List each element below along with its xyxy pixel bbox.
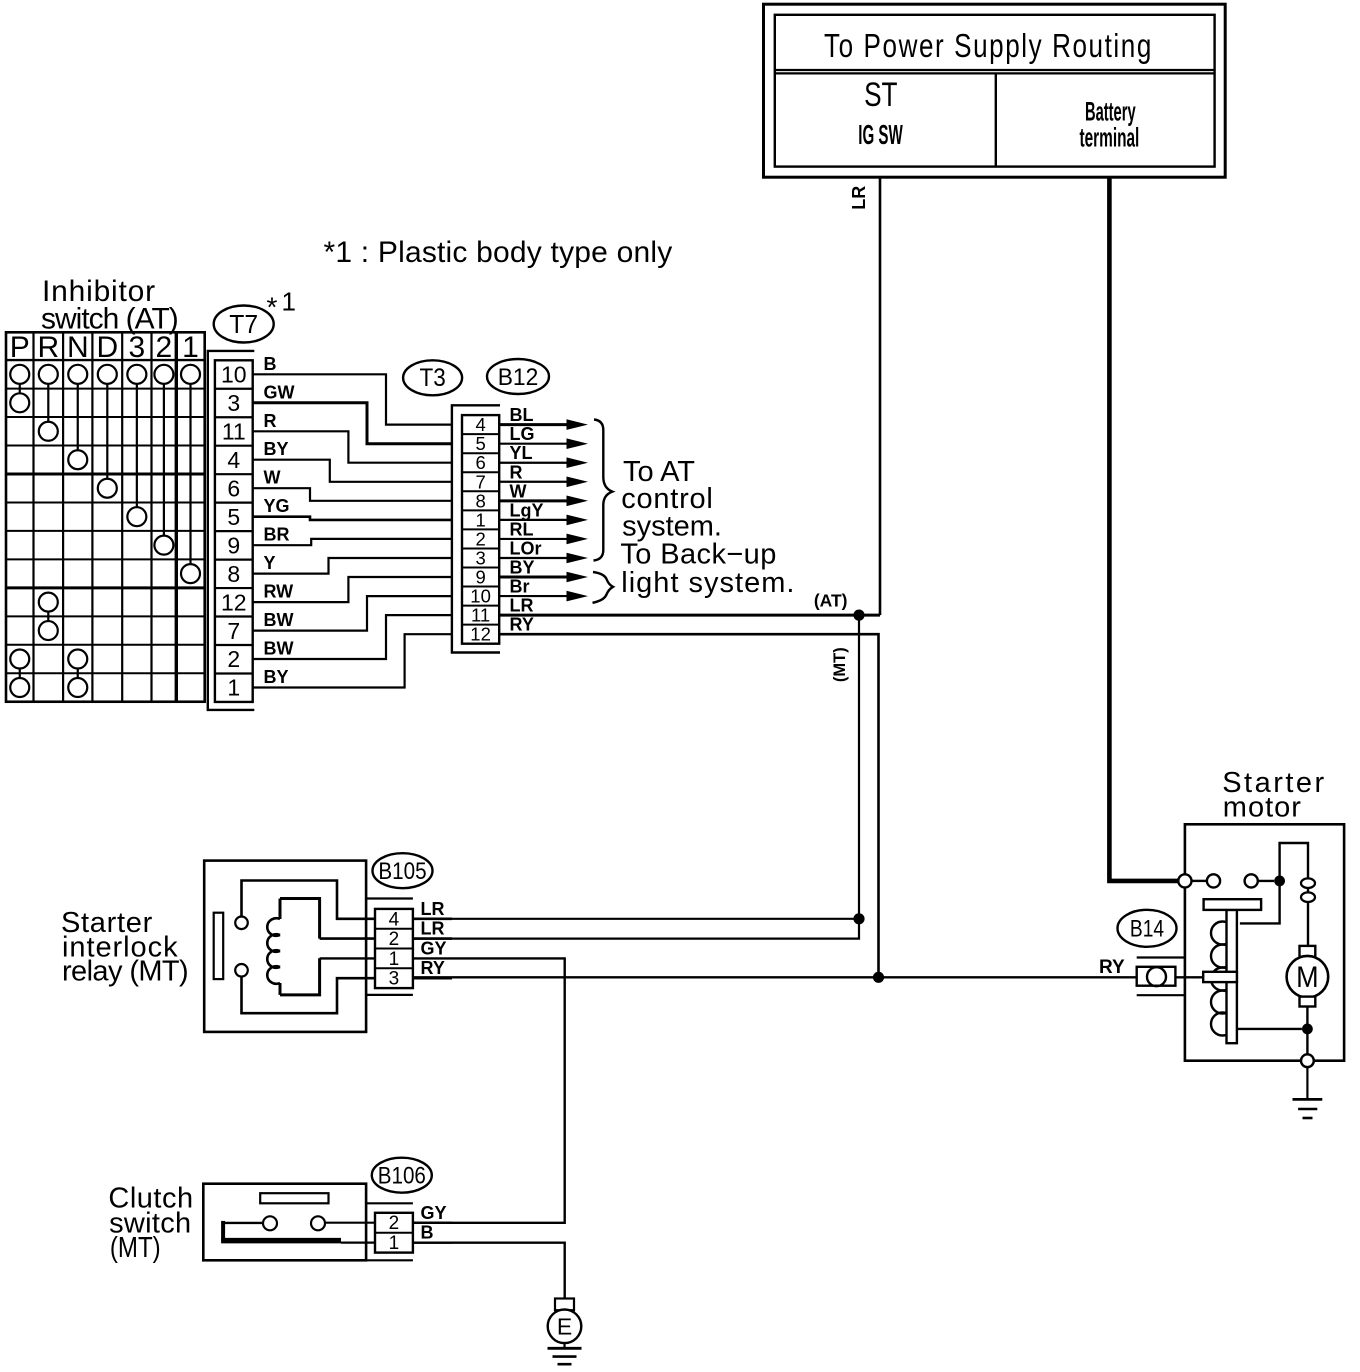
svg-text:W: W xyxy=(264,468,281,488)
svg-text:GW: GW xyxy=(264,382,295,402)
svg-text:8: 8 xyxy=(475,490,485,511)
svg-text:B105: B105 xyxy=(378,858,426,885)
svg-text:P: P xyxy=(10,331,30,364)
svg-text:1: 1 xyxy=(475,509,485,530)
wire ST (LR) vertical xyxy=(879,177,882,615)
arrow wire B12 pin 8 (W) xyxy=(499,499,569,502)
wire relay pin 4 LR xyxy=(413,918,859,920)
svg-text:BY: BY xyxy=(264,667,289,687)
relay coil xyxy=(267,899,319,995)
wire T7 pin 4 (BY) to B12 pin 7 xyxy=(253,460,453,482)
wire T7 pin 2 (BW) to B12 pin 11 xyxy=(253,615,453,659)
svg-text:9: 9 xyxy=(227,532,240,558)
connector B14 shell wings xyxy=(1137,958,1185,996)
connector B106 shell wings xyxy=(366,1203,413,1260)
arrow wire B12 pin 6 (YL) xyxy=(499,462,569,464)
plunger crossbar xyxy=(1204,899,1262,910)
svg-text:M: M xyxy=(1296,961,1318,995)
box bottom terminal circle xyxy=(1301,1054,1314,1067)
B12 pin numbers xyxy=(470,414,491,645)
annotation to back-up light system xyxy=(620,539,795,600)
brace to AT control system xyxy=(594,420,613,561)
svg-text:D: D xyxy=(96,331,118,364)
relay coil wire pin 2 xyxy=(320,937,452,940)
B12 wire color labels xyxy=(510,405,544,635)
svg-text:8: 8 xyxy=(227,561,240,587)
note *1 plastic body type xyxy=(324,236,673,269)
svg-text:9: 9 xyxy=(475,567,485,588)
svg-text:motor: motor xyxy=(1223,792,1302,824)
svg-text:R: R xyxy=(510,462,523,482)
svg-text:terminal: terminal xyxy=(1079,122,1139,153)
svg-text:GY: GY xyxy=(421,938,447,958)
arrow wire B12 pin 9 (BY) xyxy=(499,576,569,579)
svg-text:1: 1 xyxy=(282,287,296,317)
connector T7 cells xyxy=(215,360,253,702)
node motor-coil junction dot xyxy=(1302,1024,1313,1035)
connector B106 oval xyxy=(372,1158,432,1193)
svg-text:RY: RY xyxy=(510,615,534,635)
arrow wire B12 pin 3 (LOr) xyxy=(499,557,569,559)
connector B105 cells xyxy=(375,909,413,988)
svg-text:3: 3 xyxy=(227,390,240,416)
solenoid coil loops xyxy=(1211,922,1234,1036)
connector T7 oval xyxy=(214,306,274,343)
svg-text:10: 10 xyxy=(221,362,247,388)
relay contact circle bottom xyxy=(235,964,248,977)
B105 pin numbers xyxy=(389,909,400,989)
svg-text:LR: LR xyxy=(849,186,869,210)
node RY junction dot xyxy=(873,972,884,983)
wire T7 pin 1 (BY) to B12 pin 12 xyxy=(253,634,453,687)
svg-text:R: R xyxy=(264,411,277,431)
ground E symbol xyxy=(548,1343,582,1364)
arrow wire B12 pin 4 (BL) xyxy=(499,423,569,426)
svg-text:LOr: LOr xyxy=(510,539,542,559)
arrow wire B12 pin 2 (RL) xyxy=(499,538,569,540)
svg-text:(MT): (MT) xyxy=(831,647,849,682)
svg-text:light system.: light system. xyxy=(621,567,795,599)
svg-text:N: N xyxy=(67,331,89,364)
svg-text:B106: B106 xyxy=(378,1162,426,1189)
svg-text:*1 : Plastic body type only: *1 : Plastic body type only xyxy=(324,236,673,269)
connector B105 shell wings xyxy=(366,899,413,995)
svg-text:YG: YG xyxy=(264,496,290,516)
svg-text:ST: ST xyxy=(864,77,897,114)
wire T7 pin 8 (Y) to B12 pin 3 xyxy=(253,558,453,574)
svg-text:2: 2 xyxy=(156,331,173,364)
B105 wire color labels xyxy=(421,899,447,978)
svg-text:RY: RY xyxy=(1099,957,1125,978)
arrow wire B12 pin 7 (R) xyxy=(499,481,569,483)
solenoid contact link wires xyxy=(1192,880,1275,882)
connector T7 shell xyxy=(208,351,255,710)
B106 wire color labels xyxy=(421,1203,447,1243)
connector B106 cells xyxy=(375,1213,413,1253)
starter motor box xyxy=(1185,824,1344,1060)
svg-text:RW: RW xyxy=(264,582,294,602)
ground E circle xyxy=(548,1310,582,1344)
wire T7 pin 5 (YG) to B12 pin 1 xyxy=(253,517,453,520)
relay contact wire pin 3 xyxy=(242,977,453,1014)
svg-text:4: 4 xyxy=(389,909,400,930)
T7 pin numbers xyxy=(221,362,247,701)
ground E terminal rect xyxy=(555,1299,574,1311)
connector B105 oval xyxy=(373,853,433,888)
clutch switch contact circle right xyxy=(311,1216,325,1230)
power supply routing box xyxy=(764,4,1226,177)
motor bottom wire xyxy=(1306,1007,1308,1055)
arrow wire B12 pin 5 (LG) xyxy=(499,443,569,445)
svg-text:RY: RY xyxy=(421,958,445,978)
wire RY relay pin 3 to starter motor xyxy=(413,976,1203,978)
connector B12 oval xyxy=(487,359,549,394)
wire T7 pin 9 (BR) to B12 pin 2 xyxy=(253,539,453,545)
field winding wire xyxy=(1280,843,1308,946)
svg-text:LG: LG xyxy=(510,424,535,444)
solenoid contact circle B xyxy=(1178,874,1191,887)
svg-text:B12: B12 xyxy=(498,363,539,390)
clutch switch label xyxy=(108,1183,193,1264)
svg-text:2: 2 xyxy=(389,1213,400,1234)
svg-text:BW: BW xyxy=(264,639,294,659)
svg-text:LR: LR xyxy=(421,899,445,919)
svg-text:7: 7 xyxy=(475,471,485,492)
svg-text:LR: LR xyxy=(421,919,445,939)
svg-text:LgY: LgY xyxy=(510,500,544,520)
svg-text:RL: RL xyxy=(510,519,534,539)
solenoid coil bottom wire xyxy=(1237,1028,1302,1030)
wire T7 pin 12 (RW) to B12 pin 9 xyxy=(253,577,453,602)
svg-text:10: 10 xyxy=(470,586,491,607)
wire (MT) branch vertical xyxy=(413,615,859,939)
svg-text:B: B xyxy=(264,354,277,374)
node AT junction dot xyxy=(853,610,864,621)
solenoid contact circle 2 xyxy=(1207,874,1220,887)
svg-text:12: 12 xyxy=(470,624,491,645)
svg-text:5: 5 xyxy=(475,433,485,454)
solenoid pull-in wire xyxy=(1240,881,1280,924)
svg-text:BW: BW xyxy=(264,610,294,630)
inhibitor switch (AT) grid xyxy=(6,332,205,701)
svg-text:GY: GY xyxy=(421,1203,447,1223)
cell battery terminal xyxy=(1079,96,1139,153)
clutch switch slider xyxy=(260,1193,328,1203)
svg-text:2: 2 xyxy=(475,528,485,549)
asterisk 1 marker xyxy=(267,287,296,323)
svg-text:2: 2 xyxy=(389,929,400,950)
svg-text:To Back−up: To Back−up xyxy=(620,539,776,571)
starter motor label xyxy=(1222,767,1327,824)
B106 pin numbers xyxy=(389,1213,400,1254)
wire RY from B12 pin 12 down to RY node xyxy=(499,634,878,977)
svg-text:7: 7 xyxy=(227,618,240,644)
wire T7 pin 11 (R) to B12 pin 6 xyxy=(253,431,453,462)
svg-text:5: 5 xyxy=(227,504,240,530)
svg-text:BY: BY xyxy=(510,558,535,578)
connector B14 oval xyxy=(1118,910,1177,947)
wire T7 pin 7 (BW) to B12 pin 10 xyxy=(253,596,453,631)
svg-text:Br: Br xyxy=(510,577,530,597)
svg-text:BL: BL xyxy=(510,405,534,425)
svg-text:2: 2 xyxy=(227,646,240,672)
wire LR from B12 pin 11 to node AT xyxy=(499,614,880,617)
solenoid contact circle 3 xyxy=(1245,874,1258,887)
svg-text:E: E xyxy=(557,1314,572,1340)
svg-text:3: 3 xyxy=(389,969,400,990)
svg-text:*: * xyxy=(267,292,278,323)
plunger RY bar xyxy=(1203,972,1237,982)
svg-text:To Power Supply Routing: To Power Supply Routing xyxy=(824,28,1153,65)
arrow wire B12 pin 1 (LgY) xyxy=(499,519,569,521)
wire T7 pin 6 (W) to B12 pin 8 xyxy=(253,488,453,501)
svg-text:T7: T7 xyxy=(229,310,258,339)
wire battery terminal (thick) xyxy=(1109,177,1178,881)
starter interlock relay label xyxy=(61,907,188,988)
relay contact circle top xyxy=(235,917,248,930)
node LR-MT junction dot xyxy=(853,913,864,924)
svg-text:6: 6 xyxy=(475,452,485,473)
svg-text:4: 4 xyxy=(227,447,240,473)
inhibitor switch (AT) label xyxy=(41,275,178,336)
field winding loops xyxy=(1301,878,1315,902)
svg-text:LR: LR xyxy=(510,596,534,616)
clutch switch wire to pin 2 xyxy=(325,1222,452,1224)
svg-text:3: 3 xyxy=(128,331,145,364)
svg-text:relay (MT): relay (MT) xyxy=(62,956,188,988)
svg-text:YL: YL xyxy=(510,443,533,463)
svg-text:3: 3 xyxy=(475,548,485,569)
svg-text:12: 12 xyxy=(221,589,247,615)
svg-text:6: 6 xyxy=(227,475,240,501)
inhibitor switch contact circles row 1 xyxy=(10,365,200,384)
svg-text:IG SW: IG SW xyxy=(858,119,903,150)
svg-text:B: B xyxy=(421,1223,434,1243)
gear position header P R N D 3 2 1 xyxy=(10,331,199,364)
svg-text:R: R xyxy=(37,331,59,364)
wire T7 pin 3 (GW) to B12 pin 5 xyxy=(253,403,453,444)
annotation to AT control system xyxy=(621,456,722,543)
clutch switch box xyxy=(203,1184,366,1261)
clutch switch contact circle left xyxy=(263,1216,277,1230)
svg-text:4: 4 xyxy=(475,414,485,435)
svg-text:1: 1 xyxy=(227,675,240,701)
svg-text:(AT): (AT) xyxy=(814,591,848,611)
solenoid contact node dot xyxy=(1274,876,1285,887)
arrow wire B12 pin 10 (Br) xyxy=(499,595,569,597)
connector T3 oval xyxy=(403,360,462,395)
svg-text:BY: BY xyxy=(264,439,289,459)
clutch switch arm xyxy=(221,1221,452,1243)
relay armature bar xyxy=(214,913,224,979)
inhibitor switch contact links xyxy=(20,384,191,678)
T7 wire color labels xyxy=(264,354,295,687)
svg-text:1: 1 xyxy=(389,949,400,970)
plunger stem xyxy=(1227,910,1237,1043)
svg-text:Y: Y xyxy=(264,553,276,573)
starter ground wire xyxy=(1306,1067,1308,1099)
connector B12 shell xyxy=(452,405,500,652)
svg-text:BR: BR xyxy=(264,525,290,545)
brace to back-up light system xyxy=(593,572,614,603)
svg-text:W: W xyxy=(510,481,527,501)
connector B12 cells xyxy=(462,415,499,644)
svg-text:11: 11 xyxy=(222,419,246,445)
svg-text:1: 1 xyxy=(389,1233,400,1254)
svg-text:B14: B14 xyxy=(1130,915,1164,943)
motor M xyxy=(1287,946,1329,1007)
relay box xyxy=(204,861,366,1032)
inhibitor switch contact circles diagonal xyxy=(10,393,200,697)
svg-text:(MT): (MT) xyxy=(110,1231,161,1264)
wire T7 pin 10 (B) to B12 pin 4 xyxy=(253,374,453,424)
starter ground symbol xyxy=(1293,1099,1323,1118)
svg-text:11: 11 xyxy=(471,605,490,626)
connector B14 body xyxy=(1137,967,1176,986)
svg-text:1: 1 xyxy=(182,331,199,364)
svg-text:T3: T3 xyxy=(419,364,445,392)
relay contact wire pin 4 xyxy=(242,881,453,919)
wire B to ground E xyxy=(413,1243,565,1299)
relay coil wire pin 1 (GY) xyxy=(320,958,565,1222)
